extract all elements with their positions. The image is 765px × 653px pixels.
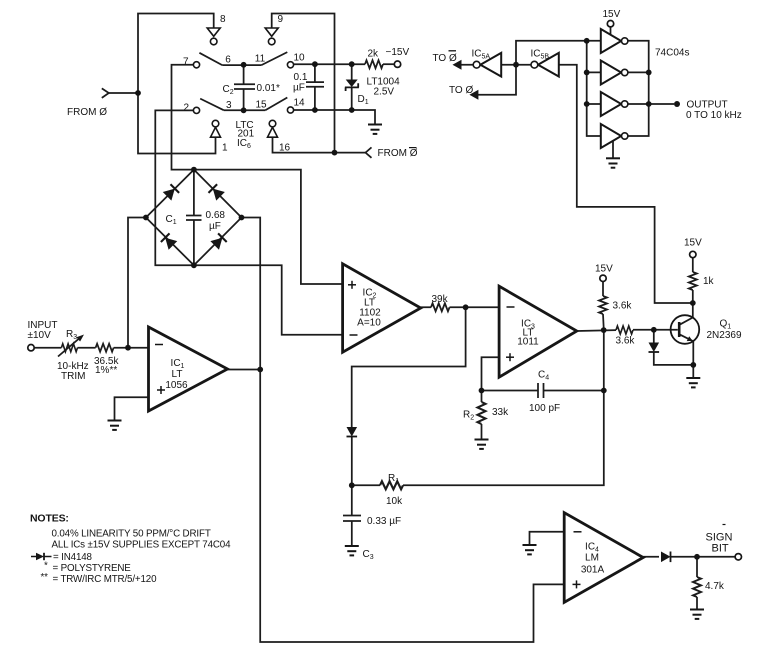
svg-text:*: * (44, 561, 48, 572)
svg-text:74C04s: 74C04s (655, 48, 689, 59)
svg-text:16: 16 (279, 143, 291, 154)
svg-text:15: 15 (256, 99, 268, 110)
svg-text:R1: R1 (388, 473, 399, 485)
svg-text:3: 3 (226, 100, 232, 111)
svg-text:ALL ICs ±15V SUPPLIES EXCEPT 7: ALL ICs ±15V SUPPLIES EXCEPT 74C04 (52, 540, 232, 551)
svg-text:100 pF: 100 pF (529, 403, 560, 414)
svg-text:0 TO 10 kHz: 0 TO 10 kHz (686, 110, 742, 121)
svg-text:2N2369: 2N2369 (707, 330, 742, 341)
svg-text:1056: 1056 (165, 380, 188, 391)
svg-text:FROM Ø: FROM Ø (378, 148, 418, 159)
svg-text:15V: 15V (684, 238, 702, 249)
svg-text:R2: R2 (463, 410, 474, 422)
svg-text:IC5A: IC5A (472, 49, 491, 61)
svg-text:−15V: −15V (386, 47, 410, 58)
svg-text:BIT: BIT (712, 543, 729, 555)
svg-text:= POLYSTYRENE: = POLYSTYRENE (53, 563, 132, 574)
svg-text:D1: D1 (358, 94, 369, 106)
svg-text:3.6k: 3.6k (616, 336, 636, 347)
svg-text:33k: 33k (492, 407, 509, 418)
svg-text:1%**: 1%** (95, 365, 117, 376)
svg-text:0.04% LINEARITY 50 PPM/°C DRIF: 0.04% LINEARITY 50 PPM/°C DRIFT (52, 529, 211, 540)
svg-text:µF: µF (293, 83, 305, 94)
svg-text:6: 6 (225, 54, 231, 65)
svg-text:301A: 301A (581, 565, 605, 576)
svg-text:IC6: IC6 (237, 138, 251, 150)
svg-text:0.68: 0.68 (206, 210, 226, 221)
svg-text:10: 10 (294, 53, 306, 64)
svg-text:10k: 10k (386, 496, 403, 507)
svg-text:C1: C1 (166, 214, 177, 226)
svg-text:A=10: A=10 (357, 318, 381, 329)
svg-text:8: 8 (220, 14, 226, 25)
svg-text:TO Ø: TO Ø (449, 85, 473, 96)
svg-text:1: 1 (222, 143, 228, 154)
svg-text:0.01*: 0.01* (257, 83, 280, 94)
svg-text:2: 2 (184, 103, 190, 114)
svg-text:15V: 15V (595, 264, 613, 275)
svg-text:= TRW/IRC MTR/5/+120: = TRW/IRC MTR/5/+120 (53, 574, 158, 585)
svg-text:1011: 1011 (517, 337, 539, 348)
svg-text:2k: 2k (368, 49, 380, 60)
svg-text:LM: LM (585, 553, 599, 564)
svg-text:1k: 1k (703, 276, 715, 287)
svg-text:IC5B: IC5B (531, 49, 550, 61)
svg-text:4.7k: 4.7k (705, 581, 725, 592)
svg-text:Q1: Q1 (720, 319, 732, 331)
svg-text:7: 7 (183, 57, 189, 68)
svg-text:FROM Ø: FROM Ø (67, 107, 107, 118)
svg-text:15V: 15V (603, 9, 621, 20)
svg-text:14: 14 (294, 98, 306, 109)
svg-text:39k: 39k (432, 294, 449, 305)
svg-text:3.6k: 3.6k (613, 301, 633, 312)
svg-text:NOTES:: NOTES: (30, 513, 69, 525)
svg-text:= IN4148: = IN4148 (53, 552, 93, 563)
svg-text:11: 11 (255, 54, 266, 65)
svg-text:0.33 µF: 0.33 µF (367, 516, 401, 527)
svg-text:2.5V: 2.5V (374, 87, 395, 98)
svg-text:**: ** (41, 572, 49, 583)
svg-text:µF: µF (209, 221, 221, 232)
svg-text:R3: R3 (66, 329, 77, 341)
svg-text:C3: C3 (363, 549, 374, 561)
svg-text:0.1: 0.1 (294, 72, 308, 83)
svg-text:LT: LT (172, 369, 183, 380)
svg-text:C2: C2 (223, 84, 234, 96)
svg-text:9: 9 (278, 14, 284, 25)
svg-text:C4: C4 (538, 370, 549, 382)
svg-text:OUTPUT: OUTPUT (687, 100, 728, 111)
svg-text:±10V: ±10V (28, 330, 52, 341)
svg-text:TRIM: TRIM (61, 371, 85, 382)
svg-text:TO Ø: TO Ø (433, 53, 457, 64)
